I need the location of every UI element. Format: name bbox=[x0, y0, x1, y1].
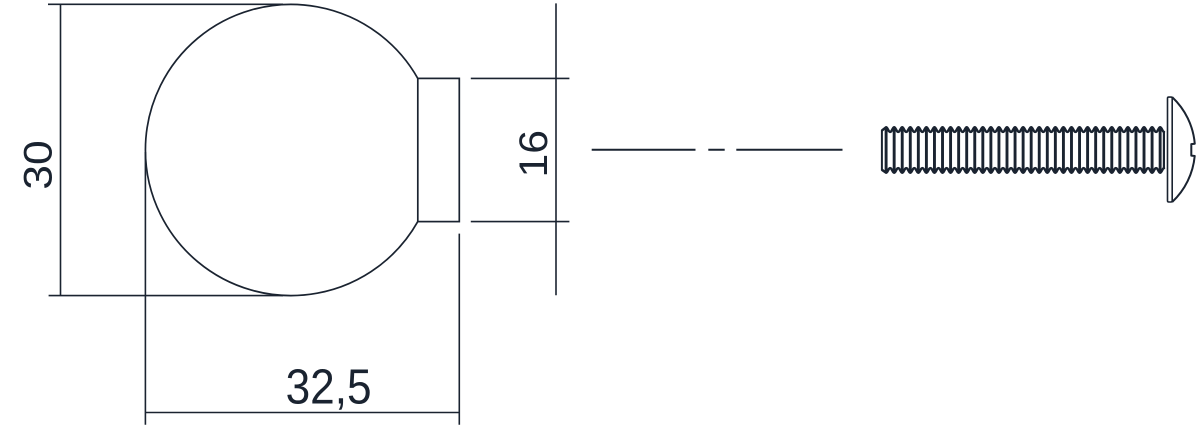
dimension 30 dimension line bbox=[60, 4, 62, 295]
dimension 16 extension line bottom bbox=[471, 221, 570, 223]
screw shaft left end edge bbox=[882, 127, 886, 172]
center line dash 3 bbox=[736, 149, 842, 151]
screw shaft end face line bbox=[1163, 132, 1165, 168]
svg-text:30: 30 bbox=[17, 140, 61, 190]
svg-text:16: 16 bbox=[512, 130, 556, 178]
screw head dome with slot notch bbox=[1172, 97, 1195, 202]
dimension 32,5 dimension line bbox=[145, 412, 459, 414]
screw thread flanks bbox=[886, 128, 1160, 172]
dimension 30 extension line top bbox=[48, 3, 283, 5]
dimension 32,5 extension line right bbox=[458, 234, 460, 425]
dimension 32,5 extension line left bbox=[144, 152, 146, 425]
screw thread top crest bbox=[882, 127, 1164, 132]
dimension 30 extension line bottom bbox=[49, 295, 283, 297]
knob neck rectangle bbox=[418, 78, 460, 221]
svg-text:32,5: 32,5 bbox=[286, 360, 372, 414]
dimension 16 dimension line bbox=[555, 3, 557, 295]
screw thread bottom crest bbox=[882, 168, 1164, 173]
knob ball circle arc bbox=[145, 4, 417, 295]
center line dash 1 bbox=[592, 149, 696, 151]
center line dash 2 bbox=[708, 149, 724, 151]
screw head flange bbox=[1168, 97, 1173, 202]
dimension 16 extension line top bbox=[471, 77, 570, 79]
